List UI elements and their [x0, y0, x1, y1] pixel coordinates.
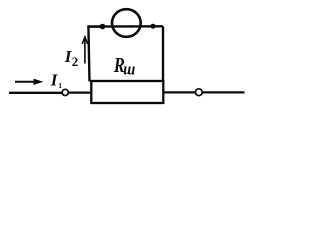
wire : left input lead [9, 92, 62, 94]
junction dot right [151, 24, 156, 29]
wire : left vertical branch [88, 27, 102, 82]
ammeter (circle) [112, 9, 141, 37]
terminal node left (open circle) [62, 89, 68, 95]
wire : right output lead [203, 91, 245, 93]
junction dot left [100, 24, 106, 30]
svg-text:2: 2 [72, 54, 79, 69]
current arrow I1 [15, 79, 43, 85]
resistor R_sh (shunt box) [91, 81, 163, 103]
svg-text:ш: ш [123, 60, 135, 78]
wire : terminal to resistor box [69, 91, 91, 93]
current arrow I2 [82, 37, 87, 64]
wire : right vertical branch [162, 26, 164, 82]
wire : resistor box to right terminal [163, 91, 195, 93]
svg-text:1: 1 [58, 81, 62, 90]
wire : top branch through ammeter [88, 25, 163, 28]
terminal node right (open circle) [195, 89, 202, 96]
